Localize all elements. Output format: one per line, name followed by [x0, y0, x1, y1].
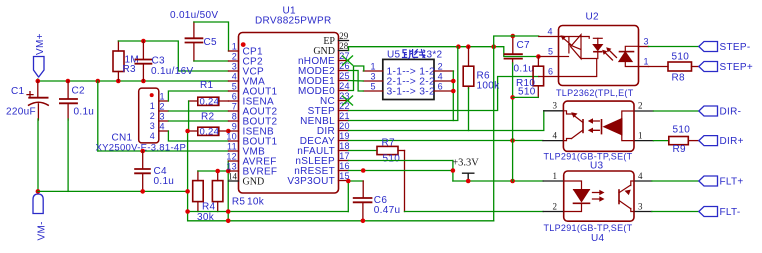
svg-text:V3P3OUT: V3P3OUT [287, 176, 335, 187]
svg-text:7: 7 [232, 102, 237, 112]
svg-text:TLP2362(TPL,E(T: TLP2362(TPL,E(T [556, 88, 634, 98]
svg-text:4: 4 [232, 72, 237, 82]
svg-text:21: 21 [339, 111, 350, 121]
svg-text:16: 16 [339, 161, 350, 171]
capacitor C2 0.1u [60, 81, 77, 120]
junction DECAY at 3V3 vertical [510, 138, 515, 143]
svg-text:14: 14 [228, 172, 238, 182]
svg-text:C2: C2 [72, 86, 86, 97]
svg-text:6: 6 [548, 67, 553, 77]
svg-text:1: 1 [232, 42, 237, 52]
port STEP- [699, 42, 718, 52]
U1 left pin numbers [226, 42, 237, 182]
U5 label glyph tiao [403, 50, 415, 59]
junction R10 bottom wire [510, 95, 515, 100]
capacitor C7 0.1u [505, 36, 522, 64]
U1 left pin names [243, 47, 278, 188]
svg-text:510: 510 [383, 154, 401, 165]
svg-text:0.1u: 0.1u [74, 107, 95, 118]
junction C6 bottom rail [361, 219, 366, 224]
svg-text:R5: R5 [232, 197, 246, 208]
svg-text:R3: R3 [123, 64, 137, 75]
svg-text:3: 3 [160, 112, 165, 122]
svg-text:0.24: 0.24 [200, 97, 220, 108]
svg-text:2: 2 [438, 62, 443, 72]
U4 phototransistor [619, 181, 634, 212]
svg-text:DRV8825PWPR: DRV8825PWPR [255, 16, 331, 27]
wire U5 pins 4 6 to NENBL net [452, 81, 454, 121]
wire U2 pin3 to STEP- [649, 46, 699, 48]
junction U5 pin4 [451, 79, 456, 84]
resistor R1 0.24 [189, 97, 229, 105]
wire VMB branch vertical x97.8 [97, 81, 99, 151]
port DIR- [699, 106, 718, 116]
svg-text:U3: U3 [590, 161, 604, 172]
svg-text:VM+: VM+ [35, 33, 46, 55]
resistor R2 0.24 [188, 127, 229, 135]
U1 pin1 marker [241, 42, 246, 47]
wire C7 bottom vertical to 3V3 [512, 63, 514, 181]
svg-text:13: 13 [226, 162, 237, 172]
wire GND vertical x228.2 pins 12-14 [227, 161, 229, 221]
svg-text:U2: U2 [586, 12, 600, 23]
svg-text:4: 4 [160, 122, 165, 132]
junction GND rail at R6 [466, 44, 471, 49]
svg-text:VM-: VM- [37, 221, 48, 240]
resistor R4 30k [193, 171, 204, 212]
U5 label glyph xian [415, 50, 425, 58]
U4 right stubs black [634, 181, 652, 212]
svg-text:17: 17 [339, 151, 350, 161]
svg-text:C7: C7 [517, 40, 531, 51]
U4 left stubs black [543, 181, 564, 212]
resistor R6 100k [463, 47, 474, 89]
wire AVREF/BVREF to R4 R5 tops [198, 170, 228, 172]
jumper U5 box [383, 59, 434, 99]
wire GND branch x493.7 U2 pin4 [494, 36, 539, 221]
svg-text:DIR+: DIR+ [720, 136, 744, 147]
svg-text:0.47u: 0.47u [374, 205, 401, 216]
U5 left stubs [363, 71, 383, 91]
no-connect X pin23 NC [343, 96, 353, 105]
wire nSLEEP pin17 [349, 160, 453, 162]
wire 3V3 rail y181 [453, 180, 543, 182]
svg-text:8: 8 [232, 112, 237, 122]
svg-text:TLP291(GB-TP,SE(T: TLP291(GB-TP,SE(T [544, 152, 633, 162]
U2 internal transistor arrow [560, 35, 566, 40]
svg-text:R8: R8 [672, 73, 686, 84]
svg-text:25: 25 [339, 71, 350, 81]
svg-text:3: 3 [644, 37, 649, 47]
U2 internal output IC triangle [559, 35, 597, 77]
svg-text:1: 1 [553, 171, 558, 181]
svg-text:3: 3 [232, 62, 237, 72]
junction R5 top [215, 169, 220, 174]
svg-text:20: 20 [339, 121, 350, 131]
wire DIR pin20 to U3 pin3 [349, 111, 544, 131]
svg-text:R7: R7 [382, 138, 396, 149]
svg-text:3-1--> 3-2: 3-1--> 3-2 [387, 87, 436, 98]
svg-text:3: 3 [553, 101, 558, 111]
svg-text:DIR-: DIR- [720, 107, 742, 118]
junction R10 top [536, 54, 541, 59]
svg-text:U5: U5 [387, 50, 401, 61]
wire NENBL pin21 to GND rail [349, 47, 458, 121]
svg-text:1: 1 [150, 101, 155, 111]
svg-text:510: 510 [518, 87, 536, 98]
wire C5 bottom to CP2 pin2 [194, 60, 229, 62]
resistor R9 510 [653, 140, 668, 142]
svg-text:C3: C3 [152, 56, 166, 67]
wire U5 pin2 down to pin4 net [452, 71, 454, 81]
svg-text:4: 4 [548, 27, 553, 37]
svg-text:10k: 10k [247, 197, 265, 208]
wire CN1 pin3 to BOUT2 pin8 [168, 120, 228, 122]
port STEP+ [699, 62, 718, 72]
svg-text:1: 1 [638, 131, 643, 141]
svg-text:28: 28 [339, 41, 349, 51]
resistor R5 10k [212, 171, 223, 212]
wire R4 R5 bottoms to V3P3OUT net [188, 211, 349, 213]
junction rail81 at VMB branch [96, 79, 101, 84]
svg-text:1: 1 [370, 62, 375, 72]
U4 LED [564, 181, 590, 212]
capacitor C6 0.47u [354, 181, 372, 221]
svg-text:2: 2 [160, 102, 165, 112]
U2 right stubs [639, 47, 649, 67]
svg-text:11: 11 [227, 142, 237, 152]
U2 input LED [619, 46, 639, 66]
node VM+ port [34, 57, 45, 78]
port FLT- [699, 207, 718, 217]
junction GND rail at x493.7 [491, 44, 496, 49]
svg-text:3: 3 [370, 72, 375, 82]
wire VM- rail y191.4 [38, 190, 188, 192]
svg-text:R1: R1 [200, 80, 214, 91]
resistor R10 510 [533, 57, 544, 98]
junction x228.2 y211.5 [226, 209, 231, 214]
optocoupler U4 TLP291 body [564, 171, 634, 221]
svg-text:R9: R9 [673, 144, 687, 155]
svg-text:510: 510 [672, 52, 690, 63]
svg-text:GND: GND [243, 177, 265, 188]
svg-text:0.24: 0.24 [200, 127, 220, 138]
U1 right pin stubs 27-15 [339, 61, 349, 181]
wire STEP pin22 to U2 pin6 [349, 77, 539, 111]
wire R6 bottom to DIR net [468, 88, 470, 131]
junction rail81 at C1 [36, 79, 41, 84]
svg-text:3*2: 3*2 [427, 50, 443, 61]
svg-text:TLP291(GB-TP,SE(T: TLP291(GB-TP,SE(T [544, 223, 633, 233]
wire C1 to VM- rail [37, 119, 39, 191]
wire nRESET pin16 [349, 161, 453, 182]
wire CN1 pin2 to AOUT2 pin7 [168, 110, 228, 112]
wire U3 pin2 to DIR- [653, 110, 698, 112]
junction nRESET tee [451, 168, 456, 173]
svg-text:2: 2 [553, 202, 558, 212]
svg-text:1: 1 [644, 57, 649, 67]
junction R2 right pin9 [226, 129, 231, 134]
svg-text:U4: U4 [591, 233, 605, 244]
svg-text:0.1u/16V: 0.1u/16V [151, 66, 193, 77]
svg-text:C1: C1 [11, 86, 25, 97]
resistor R8 510 [649, 62, 699, 71]
connector CN1 XY2500V-E-3.81-4P [139, 88, 159, 143]
wire C2 to bottom rail [67, 119, 69, 191]
U1 left pin stubs 1-13 [229, 51, 239, 171]
svg-text:510: 510 [673, 125, 691, 136]
U2 internal LED [593, 38, 602, 58]
svg-text:19: 19 [339, 131, 350, 141]
junction R2 left [185, 129, 190, 134]
junction C6 top on nRESET wire [361, 168, 366, 173]
wire MODE1 to U5 pin3 [349, 80, 364, 83]
svg-text:STEP+: STEP+ [720, 62, 753, 73]
U1 right pin names [287, 36, 335, 187]
port DIR+ [699, 136, 718, 146]
wire CN1 pin4 to BOUT1 pin10 [168, 131, 228, 141]
resistor R7 510 [349, 150, 378, 152]
wire U4 pin3 to FLT- [652, 211, 699, 213]
U3 left stubs black [543, 111, 564, 141]
U3 light arrows [592, 121, 600, 130]
svg-text:FLT+: FLT+ [720, 177, 744, 188]
svg-text:5: 5 [548, 47, 553, 57]
optocoupler U3 TLP291 body [563, 101, 634, 151]
wire MODE0 to U5 pin1 [349, 66, 364, 91]
svg-text:6: 6 [232, 92, 237, 102]
junction U5 pin6 [451, 89, 456, 94]
junction BVREF stub [226, 169, 231, 174]
wire CN1 pin1 to AOUT1 pin5 [168, 91, 228, 101]
junction x228.2 bottom rail [226, 219, 231, 224]
junction sense vert y211.5 [185, 209, 190, 214]
wire V3P3OUT pin15 [348, 181, 363, 212]
capacitor C3 0.1u/16V [135, 41, 151, 81]
svg-text:6: 6 [438, 82, 443, 92]
svg-text:0.1u: 0.1u [154, 176, 175, 187]
node VM- port [36, 189, 41, 194]
U3 phototransistor [563, 111, 583, 141]
capacitor C1 220uF [27, 81, 48, 120]
wire C5 top to CP1 pin1 [194, 22, 229, 51]
optocoupler U2 TLP2362 body [559, 26, 639, 86]
svg-text:2: 2 [638, 101, 643, 111]
CN1 pin1 marker [150, 93, 154, 97]
junction C7 top [511, 34, 516, 39]
wire VMB to pin11 [98, 150, 229, 152]
wire VM+ rail y81 [38, 79, 229, 81]
svg-text:0.01u/50V: 0.01u/50V [170, 10, 218, 21]
svg-text:5: 5 [370, 82, 375, 92]
no-connect X pin27 nHOME [343, 56, 353, 65]
svg-text:C5: C5 [204, 37, 218, 48]
U3 LED [602, 111, 635, 141]
port FLT+ [699, 176, 718, 186]
svg-text:2: 2 [232, 52, 237, 62]
svg-text:18: 18 [339, 141, 350, 151]
U1 pin14 stub GND black [229, 180, 239, 182]
svg-text:0.1u: 0.1u [514, 64, 535, 75]
svg-text:10: 10 [226, 132, 237, 142]
junction top wire at C3 [141, 39, 146, 44]
resistor R3 1M [113, 41, 124, 81]
CN1 pin stubs [159, 101, 169, 131]
svg-text:FLT-: FLT- [720, 207, 741, 218]
svg-text:2: 2 [150, 111, 155, 121]
U3 right stubs black [634, 111, 653, 141]
svg-text:24: 24 [339, 81, 350, 91]
junction 3V3 at x512.6 [510, 179, 515, 184]
junction rail81 at C3 [141, 79, 146, 84]
svg-text:29: 29 [339, 31, 349, 41]
svg-text:+3.3V: +3.3V [452, 158, 479, 169]
junction V3P3OUT stub [346, 179, 351, 184]
svg-text:4: 4 [150, 131, 155, 141]
U1 right pin numbers [339, 31, 350, 181]
junction 3V3 symbol [466, 179, 471, 184]
wire R10 bottom to C7 net [513, 96, 539, 98]
junction rail81 at R3 [116, 79, 121, 84]
svg-text:1: 1 [160, 92, 165, 102]
wire DECAY pin19 to U3 pin4 [349, 140, 543, 142]
wire R3/C3 top to VCP pin3 [118, 41, 228, 71]
op-amp U1 DRV8825PWPR body [239, 33, 339, 194]
svg-text:100k: 100k [477, 81, 501, 92]
junction GND rail at NENBL [456, 44, 461, 49]
wire U4 pin4 to FLT+ [652, 180, 699, 182]
svg-text:4: 4 [638, 171, 643, 181]
svg-text:9: 9 [232, 122, 237, 132]
wire GND pin28 rail [349, 47, 539, 57]
capacitor C4 0.1u [140, 149, 145, 154]
svg-text:STEP-: STEP- [720, 42, 751, 53]
U5 right stubs [434, 71, 454, 91]
svg-text:30k: 30k [197, 212, 215, 223]
svg-text:3: 3 [150, 121, 155, 131]
svg-text:5: 5 [232, 82, 237, 92]
svg-text:220uF: 220uF [6, 107, 36, 118]
svg-text:R2: R2 [201, 112, 215, 123]
U1 right pin stubs 29 28 black [339, 41, 349, 51]
svg-text:12: 12 [226, 152, 237, 162]
U2 light arrows [605, 50, 617, 61]
wire R7 to U4 pin2 [405, 211, 544, 213]
svg-text:4: 4 [438, 72, 443, 82]
wire MODE2 to U5 pin5 [349, 71, 364, 92]
U2 left stubs [539, 37, 559, 77]
svg-text:3: 3 [638, 202, 643, 212]
U4 light arrows [593, 193, 601, 200]
junction rail81 at C2 [66, 79, 71, 84]
svg-text:4: 4 [553, 131, 558, 141]
junction VM- rail at sense vertical [185, 189, 190, 194]
wire sense net vertical x187.6 [188, 101, 494, 221]
